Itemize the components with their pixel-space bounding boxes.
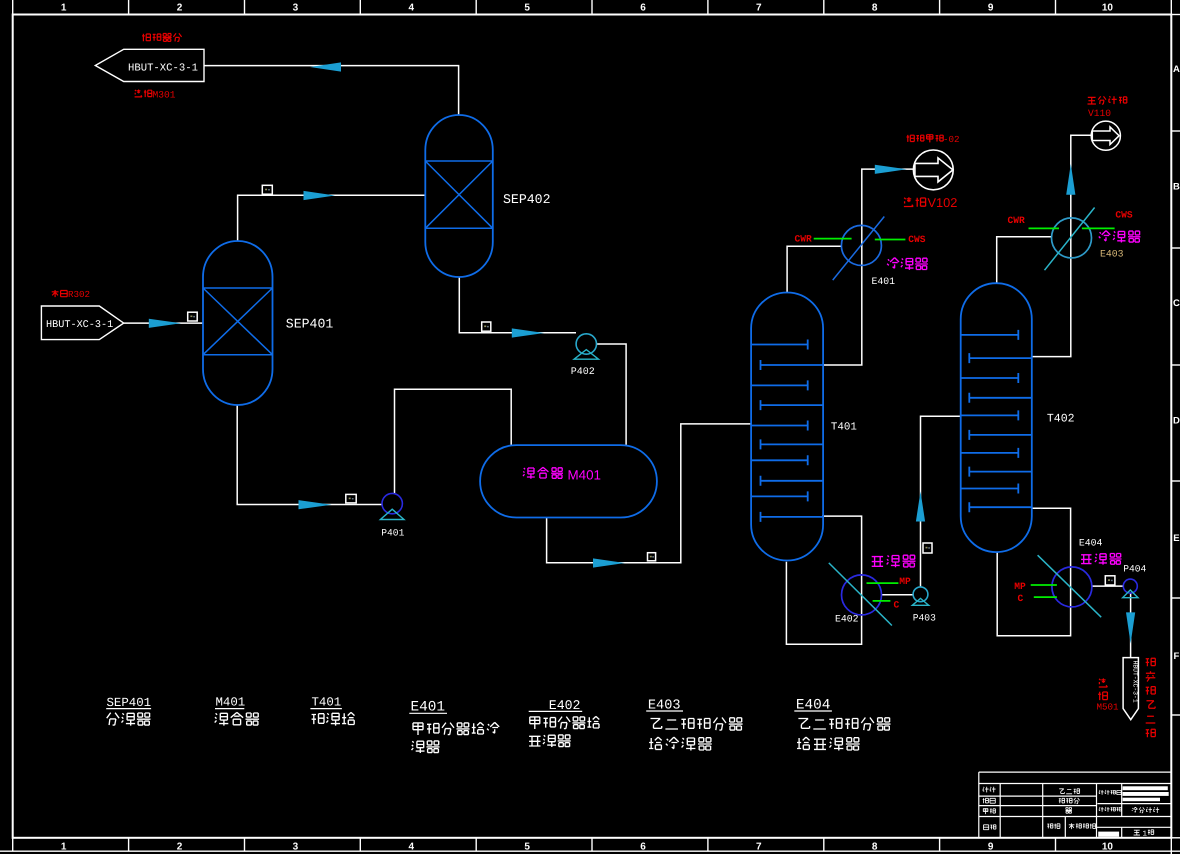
svg-text:CWR: CWR bbox=[1008, 215, 1026, 226]
svg-text:E402: E402 bbox=[835, 614, 859, 625]
legend SEP401 bbox=[106, 696, 151, 710]
svg-text:1: 1 bbox=[61, 842, 67, 853]
label 再沸器 E402 bbox=[872, 555, 916, 567]
instrument box 4 bbox=[346, 494, 356, 503]
tb 张 bbox=[1148, 830, 1154, 835]
wire SEP402 bottom to P402 bbox=[459, 277, 576, 333]
tb 初步设计 bbox=[1132, 807, 1159, 813]
legend E404 bbox=[794, 697, 832, 713]
arrow E403 to V110 (up) bbox=[1066, 164, 1075, 195]
svg-text:P402: P402 bbox=[571, 367, 595, 378]
svg-text:A: A bbox=[1173, 64, 1180, 75]
svg-text:SEP401: SEP401 bbox=[286, 316, 334, 331]
wire P401 to M401 bbox=[395, 389, 512, 493]
wire E401 V102 and reflux bbox=[823, 169, 913, 365]
wire T402 bottoms loop E404 bbox=[997, 508, 1070, 636]
wire flag2 to SEP401 bbox=[124, 322, 203, 324]
tb 不按比例 bbox=[1069, 823, 1096, 829]
svg-text:5: 5 bbox=[524, 842, 530, 853]
svg-text:1: 1 bbox=[1143, 831, 1148, 839]
svg-text:C: C bbox=[894, 599, 900, 610]
svg-text:F: F bbox=[1173, 651, 1179, 662]
legend 混合器 bbox=[215, 712, 259, 725]
wire E404 to P404 bbox=[1092, 585, 1123, 587]
legend 塔再沸器 bbox=[797, 737, 860, 750]
label 送往 M501 vert bbox=[1098, 678, 1107, 700]
svg-text:MP: MP bbox=[1014, 581, 1026, 592]
legend 再沸器b bbox=[529, 735, 571, 747]
tb 审核 bbox=[983, 809, 995, 815]
wire T402 top to E403 bbox=[997, 237, 1052, 284]
svg-text:4: 4 bbox=[409, 842, 415, 853]
connector V110 bbox=[1091, 121, 1120, 150]
svg-text:T401: T401 bbox=[831, 421, 857, 433]
instrument box 7 bbox=[1105, 576, 1115, 585]
svg-text:-02: -02 bbox=[943, 134, 960, 145]
wire SEP401 top to SEP402 bbox=[238, 195, 426, 241]
svg-text:8: 8 bbox=[872, 842, 878, 853]
legend T401 bbox=[310, 696, 342, 710]
svg-text:3: 3 bbox=[293, 842, 299, 853]
label 粗产物乙二醇 vert bbox=[1146, 658, 1156, 737]
svg-text:10: 10 bbox=[1102, 3, 1114, 14]
label 送往V102 hanzi bbox=[904, 197, 926, 207]
column T402 bbox=[961, 283, 1032, 552]
svg-text:CWS: CWS bbox=[1115, 210, 1133, 221]
pump P404 bbox=[1123, 579, 1138, 598]
tb 制图 bbox=[983, 798, 996, 803]
svg-text:M401: M401 bbox=[216, 696, 246, 710]
svg-text:6: 6 bbox=[640, 3, 646, 14]
legend 分流器 bbox=[107, 713, 151, 726]
label 循环甲醇 bbox=[907, 135, 944, 143]
svg-text:2: 2 bbox=[177, 3, 183, 14]
arrow E401 to V102 (right) bbox=[875, 165, 907, 174]
svg-text:5: 5 bbox=[524, 3, 530, 14]
heat exchanger E401 bbox=[833, 217, 885, 281]
svg-text:E401: E401 bbox=[872, 276, 896, 287]
MP line E402 bbox=[867, 582, 899, 584]
svg-text:9: 9 bbox=[988, 3, 994, 14]
svg-text:E: E bbox=[1173, 533, 1179, 544]
pump P401 bbox=[380, 493, 404, 519]
svg-text:1: 1 bbox=[61, 3, 67, 14]
label 来自 bbox=[52, 290, 67, 297]
CWS line E401 bbox=[875, 239, 906, 241]
instrument box 2 bbox=[262, 185, 272, 194]
tb 离 bbox=[1066, 808, 1072, 814]
wire flag1 to SEP402 top bbox=[204, 66, 459, 115]
arrow into P401 (right) bbox=[299, 500, 332, 509]
wire P402 to M401 bbox=[597, 344, 627, 445]
heat exchanger E404 bbox=[1038, 555, 1102, 617]
arrow into SEP401 (right) bbox=[149, 319, 181, 328]
CWS line E403 bbox=[1082, 227, 1115, 229]
svg-text:M401: M401 bbox=[568, 467, 602, 482]
tb 共 bbox=[1134, 830, 1140, 835]
svg-text:SEP402: SEP402 bbox=[503, 192, 550, 207]
arrow P404 to product (down) bbox=[1126, 612, 1135, 643]
arrow P403 discharge (up) bbox=[916, 491, 925, 521]
tb 比例 bbox=[1047, 824, 1060, 829]
C line E404 bbox=[1034, 596, 1057, 598]
title block grid bbox=[979, 772, 1172, 838]
label 再沸器 E404 bbox=[1081, 554, 1121, 565]
label 混合器 bbox=[523, 467, 563, 478]
instrument box 6 bbox=[923, 543, 932, 553]
label 送往 bbox=[135, 90, 152, 98]
svg-text:HBUT-XC-3-1: HBUT-XC-3-1 bbox=[46, 320, 113, 331]
wire M401 to T401 feed bbox=[547, 424, 752, 563]
svg-text:P401: P401 bbox=[381, 528, 404, 539]
svg-text:R302: R302 bbox=[68, 289, 90, 300]
svg-text:C: C bbox=[1018, 593, 1024, 604]
svg-text:HBUT-XC-3-1: HBUT-XC-3-1 bbox=[1131, 661, 1138, 703]
svg-text:T401: T401 bbox=[312, 696, 342, 710]
svg-text:T402: T402 bbox=[1047, 413, 1075, 426]
arrow SEP401 to SEP402 (right) bbox=[304, 191, 336, 200]
svg-text:7: 7 bbox=[756, 3, 762, 14]
svg-text:6: 6 bbox=[640, 842, 646, 853]
svg-text:V110: V110 bbox=[1088, 108, 1111, 119]
wire E403 V110 and reflux bbox=[1032, 135, 1091, 356]
svg-text:E402: E402 bbox=[549, 698, 581, 713]
svg-text:P403: P403 bbox=[913, 612, 936, 623]
MP line E404 bbox=[1031, 584, 1057, 586]
column T401 bbox=[751, 293, 823, 561]
instrument box 5 bbox=[648, 553, 656, 561]
arrow M401 outlet (right) bbox=[593, 558, 625, 567]
svg-text:B: B bbox=[1173, 182, 1180, 193]
product flag vertical bbox=[1123, 658, 1138, 720]
instrument box 1 bbox=[188, 312, 198, 321]
CWR line E403 bbox=[1029, 227, 1060, 229]
stream flag HBUT-XC-3-1 (to M301) bbox=[95, 49, 204, 81]
CWR line E401 bbox=[814, 238, 852, 240]
label 冷凝器 E403 bbox=[1099, 231, 1141, 243]
legend 塔冷凝器 bbox=[649, 737, 712, 750]
svg-text:9: 9 bbox=[988, 842, 994, 853]
C line E402 bbox=[873, 600, 891, 602]
wire P404 down to product flag bbox=[1130, 593, 1132, 657]
tb 设计阶段 bbox=[1099, 807, 1121, 812]
separator SEP401 bbox=[203, 241, 273, 405]
svg-text:D: D bbox=[1173, 416, 1180, 427]
svg-text:V102: V102 bbox=[928, 195, 958, 210]
svg-text:MP: MP bbox=[899, 576, 911, 587]
label 冷凝器 E401 bbox=[887, 258, 928, 270]
legend M401 bbox=[215, 696, 245, 710]
svg-text:M301: M301 bbox=[153, 90, 176, 101]
svg-text:P404: P404 bbox=[1123, 563, 1146, 574]
svg-text:C: C bbox=[1173, 298, 1180, 309]
wire E402 to P403 bbox=[881, 594, 913, 596]
heat exchanger E403 bbox=[1045, 208, 1095, 271]
wire T401 top to E401 bbox=[787, 246, 841, 292]
tb 设计项目 bbox=[1099, 790, 1121, 795]
pump P403 bbox=[912, 587, 928, 605]
legend E402 bbox=[529, 698, 583, 713]
tb white bars bbox=[1098, 786, 1169, 837]
legend E403 bbox=[646, 698, 683, 713]
svg-text:E403: E403 bbox=[1100, 249, 1124, 260]
arrow to flag1 (left) bbox=[310, 62, 341, 71]
label 至废料罐 bbox=[1088, 96, 1127, 104]
svg-text:7: 7 bbox=[756, 842, 762, 853]
legend 甲醇分离塔 bbox=[530, 716, 600, 729]
wire SEP401 bottom to P401 bbox=[237, 405, 382, 505]
stream flag HBUT-XC-3-1 (from R302) bbox=[41, 306, 123, 340]
separator SEP402 bbox=[425, 115, 493, 277]
instrument box 3 bbox=[482, 322, 491, 331]
tb 的预分 bbox=[1059, 798, 1080, 804]
svg-text:CWS: CWS bbox=[908, 234, 926, 245]
wire P403 to T402 feed bbox=[921, 416, 961, 587]
svg-text:4: 4 bbox=[409, 3, 415, 14]
heat exchanger E402 bbox=[829, 563, 892, 626]
svg-text:SEP401: SEP401 bbox=[107, 696, 152, 710]
svg-text:2: 2 bbox=[177, 842, 183, 853]
pump P402 bbox=[574, 334, 598, 359]
legend 凝器 bbox=[412, 741, 440, 753]
connector V102 bbox=[913, 150, 953, 190]
legend 乙二醇预分离a bbox=[651, 718, 743, 731]
svg-text:3: 3 bbox=[293, 3, 299, 14]
arrow SEP402 to P402 (right) bbox=[512, 328, 544, 337]
svg-text:HBUT-XC-3-1: HBUT-XC-3-1 bbox=[128, 62, 198, 74]
legend E401 bbox=[409, 700, 447, 716]
svg-text:8: 8 bbox=[872, 3, 878, 14]
legend 乙二醇预分离b bbox=[798, 718, 890, 731]
tb 乙二醇 bbox=[1059, 789, 1079, 794]
legend 甲醇分离塔冷 bbox=[413, 722, 499, 735]
svg-text:E404: E404 bbox=[1079, 538, 1103, 549]
mixer M401 vessel bbox=[480, 445, 657, 517]
svg-text:M501: M501 bbox=[1097, 702, 1120, 713]
tb 日期 bbox=[984, 825, 996, 830]
label 循环氢气 bbox=[142, 33, 182, 41]
tb 设计 bbox=[983, 787, 996, 793]
svg-text:10: 10 bbox=[1102, 842, 1114, 853]
svg-text:CWR: CWR bbox=[795, 234, 813, 245]
legend 精馏塔 bbox=[312, 712, 355, 725]
wire T401 bottoms loop E402 bbox=[786, 516, 861, 644]
